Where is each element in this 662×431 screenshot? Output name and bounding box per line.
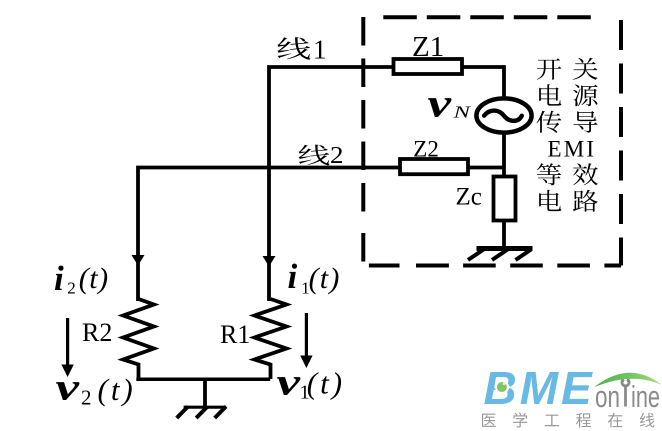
- svg-text:2: 2: [67, 279, 76, 298]
- svg-text:(t): (t): [309, 262, 341, 295]
- svg-text:(t): (t): [98, 372, 136, 407]
- svg-text:Zc: Zc: [456, 184, 482, 211]
- svg-text:i: i: [288, 257, 298, 296]
- svg-text:2: 2: [81, 386, 92, 410]
- svg-text:2: 2: [330, 143, 344, 169]
- svg-text:v: v: [277, 362, 302, 404]
- svg-text:ine: ine: [631, 379, 660, 414]
- svg-text:(t): (t): [307, 366, 345, 401]
- svg-text:N: N: [452, 103, 472, 122]
- svg-text:Z1: Z1: [412, 31, 444, 63]
- svg-text:R1: R1: [220, 320, 250, 349]
- svg-text:1: 1: [313, 34, 327, 64]
- svg-text:EMI: EMI: [548, 137, 597, 162]
- svg-text:v: v: [428, 81, 453, 126]
- svg-text:Z2: Z2: [413, 136, 439, 161]
- svg-text:v: v: [56, 367, 81, 409]
- svg-text:(t): (t): [79, 262, 109, 295]
- svg-text:i: i: [54, 259, 64, 298]
- svg-text:R2: R2: [82, 318, 112, 347]
